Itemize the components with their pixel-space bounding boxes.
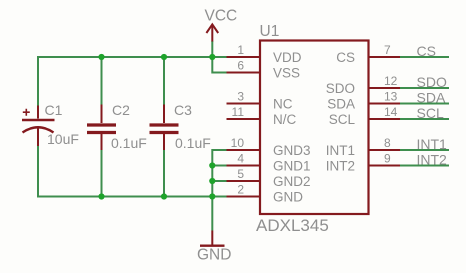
net label INT2 [417, 152, 448, 168]
svg-text:GND1: GND1 [273, 159, 311, 174]
wire net SCL [400, 118, 449, 120]
pin name GND [273, 190, 303, 205]
svg-text:SCL: SCL [417, 105, 444, 121]
svg-text:ADXL345: ADXL345 [256, 216, 329, 235]
pin 11 stub N/C [227, 118, 261, 120]
pin 12 stub SDO [369, 87, 401, 89]
pin name CS [336, 50, 355, 65]
pin number 13 [384, 90, 398, 104]
capacitor C1 designator [45, 102, 63, 118]
wire VCC symbol stem [211, 41, 213, 57]
junction dot top rail at C3 [161, 54, 167, 60]
capacitor C2 symbol [87, 105, 116, 151]
net label SDA [417, 90, 446, 106]
svg-text:0.1uF: 0.1uF [111, 135, 147, 151]
svg-text:13: 13 [384, 90, 398, 104]
net label INT1 [417, 136, 448, 152]
wire net SDA [400, 103, 449, 105]
wire GND symbol stem [211, 197, 213, 231]
wire C3 top lead [163, 57, 165, 105]
wire C2 bottom lead [101, 150, 103, 197]
svg-text:C1: C1 [45, 102, 63, 118]
VCC power symbol arrow [206, 24, 218, 41]
junction dot bottom rail at GND [209, 193, 215, 199]
svg-text:NC: NC [273, 97, 293, 112]
wire net CS [400, 56, 449, 58]
svg-text:VDD: VDD [273, 50, 302, 65]
capacitor C1 symbol [22, 106, 55, 147]
ADXL345 value label [256, 216, 329, 235]
wire VCC to pin 6 [212, 57, 227, 73]
VCC net label [205, 8, 238, 25]
junction dot pin 5 [209, 178, 215, 184]
pin number 2 [237, 183, 244, 197]
pin 3 stub NC [227, 103, 261, 105]
wire net INT1 [400, 149, 449, 151]
pin number 8 [384, 136, 391, 150]
wire GND bottom rail [38, 196, 227, 198]
svg-text:CS: CS [417, 43, 436, 59]
svg-text:C3: C3 [174, 102, 192, 118]
svg-text:4: 4 [237, 152, 244, 166]
net label SDO [417, 74, 447, 90]
pin number 3 [237, 90, 244, 104]
capacitor C2 value 0.1uF [111, 135, 147, 151]
svg-text:SDA: SDA [327, 97, 355, 112]
junction dot bottom rail at C2 [98, 193, 104, 199]
pin name N/C [273, 112, 297, 127]
pin number 1 [237, 43, 244, 57]
capacitor C3 designator [174, 102, 192, 118]
junction dot pin 4 [209, 162, 215, 168]
pin name INT2 [326, 159, 355, 174]
wire C3 bottom lead [163, 150, 165, 197]
svg-text:11: 11 [232, 105, 245, 119]
svg-text:N/C: N/C [273, 112, 297, 127]
GND net label [197, 247, 231, 264]
pin 7 stub CS [369, 56, 401, 58]
svg-text:10: 10 [231, 136, 245, 150]
capacitor C3 symbol [150, 105, 179, 151]
svg-text:U1: U1 [260, 23, 280, 40]
wire C1 top lead [37, 56, 39, 106]
pin name VDD [273, 50, 302, 65]
pin name GND3 [273, 143, 311, 158]
pin name SCL [329, 112, 356, 127]
pin number 4 [237, 152, 244, 166]
wire net INT2 [400, 165, 449, 167]
pin number 9 [384, 152, 391, 166]
pin name VSS [273, 66, 300, 81]
svg-text:INT2: INT2 [417, 152, 448, 168]
svg-text:5: 5 [237, 167, 244, 181]
svg-text:SDO: SDO [326, 81, 355, 96]
pin number 12 [384, 74, 398, 88]
pin 1 stub VDD [227, 56, 261, 58]
svg-text:GND: GND [197, 247, 231, 264]
capacitor C1 value 10uF [47, 131, 79, 147]
svg-text:SDA: SDA [417, 90, 446, 106]
svg-text:INT1: INT1 [326, 143, 355, 158]
pin number 14 [384, 105, 398, 119]
pin 14 stub SCL [369, 118, 401, 120]
svg-text:GND2: GND2 [273, 174, 311, 189]
svg-text:2: 2 [237, 183, 244, 197]
wire C1 bottom lead [37, 146, 39, 198]
svg-text:CS: CS [336, 50, 355, 65]
wire C2 top lead [101, 57, 103, 105]
svg-text:1: 1 [237, 43, 244, 57]
svg-text:6: 6 [237, 59, 244, 73]
pin 4 stub GND1 [227, 165, 261, 167]
svg-text:3: 3 [237, 90, 244, 104]
svg-text:8: 8 [384, 136, 391, 150]
pin 2 stub GND [227, 196, 261, 198]
pin 9 stub INT2 [369, 165, 401, 167]
pin number 11 [232, 105, 245, 119]
pin name INT1 [326, 143, 355, 158]
pin number 6 [237, 59, 244, 73]
svg-text:7: 7 [384, 43, 391, 57]
pin number 7 [384, 43, 391, 57]
wire to pin 4 [212, 165, 227, 167]
svg-text:0.1uF: 0.1uF [175, 135, 211, 151]
svg-text:10uF: 10uF [47, 131, 79, 147]
pin 8 stub INT1 [369, 149, 401, 151]
capacitor C3 value 0.1uF [175, 135, 211, 151]
svg-text:INT1: INT1 [417, 136, 448, 152]
svg-text:14: 14 [384, 105, 398, 119]
svg-text:SCL: SCL [329, 112, 356, 127]
pin 5 stub GND2 [227, 180, 261, 182]
pin name GND2 [273, 174, 311, 189]
svg-text:12: 12 [384, 74, 398, 88]
svg-text:9: 9 [384, 152, 391, 166]
pin name SDO [326, 81, 355, 96]
wire to pin 5 [212, 180, 227, 182]
op-amp U1 ADXL345 IC body [260, 41, 369, 215]
svg-text:GND: GND [273, 190, 303, 205]
wire VCC top rail [38, 56, 227, 58]
net label SCL [417, 105, 444, 121]
pin 10 stub GND3 [227, 149, 261, 151]
svg-text:INT2: INT2 [326, 159, 355, 174]
wire ground column to pin 10 [212, 150, 227, 197]
ground symbol GND [200, 231, 225, 246]
pin number 10 [231, 136, 245, 150]
net label CS [417, 43, 436, 59]
wire net SDO [400, 87, 449, 89]
junction dot bottom rail at C3 [161, 193, 167, 199]
svg-text:VCC: VCC [205, 8, 238, 25]
pin 6 stub VSS [227, 72, 261, 74]
pin name GND1 [273, 159, 311, 174]
svg-text:SDO: SDO [417, 74, 447, 90]
pin name SDA [327, 97, 355, 112]
junction dot top rail at C2 [98, 54, 104, 60]
pin name NC [273, 97, 293, 112]
capacitor C2 designator [112, 102, 130, 118]
svg-text:VSS: VSS [273, 66, 300, 81]
pin 13 stub SDA [369, 103, 401, 105]
U1 designator label [260, 23, 280, 40]
junction dot top rail at VCC [209, 54, 215, 60]
svg-text:GND3: GND3 [273, 143, 311, 158]
pin number 5 [237, 167, 244, 181]
svg-text:C2: C2 [112, 102, 130, 118]
